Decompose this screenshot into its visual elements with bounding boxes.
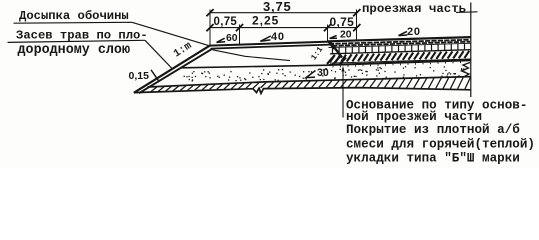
sand layer top line (pavement zone, thick) <box>329 60 471 65</box>
svg-text:40: 40 <box>271 31 285 43</box>
svg-text:2,25: 2,25 <box>252 13 279 27</box>
sand stipple dots <box>184 66 466 81</box>
slope arrow 40 <box>260 36 271 41</box>
sand layer top line (shoulder zone) <box>182 65 330 68</box>
svg-text:20: 20 <box>340 29 352 40</box>
underline of Досыпка обочины <box>14 21 133 24</box>
ground line top of hatch strip <box>148 77 471 87</box>
dimension line 3,75 <box>210 12 358 14</box>
dimension line 0,75/2,25/0,75 <box>210 27 358 29</box>
sub-base bottom thin line <box>330 59 471 63</box>
leader from Досыпка обочины to shoulder hinge <box>132 22 210 46</box>
svg-text:60: 60 <box>226 33 238 44</box>
embankment slope inner line <box>139 49 212 93</box>
embankment slope outer line <box>134 46 210 93</box>
sand layer torn right edge <box>462 63 471 77</box>
old shoulder boundary line <box>213 50 291 61</box>
svg-text:0,75: 0,75 <box>214 16 238 28</box>
svg-text:Покрытие из плотной а/б: Покрытие из плотной а/б <box>346 122 520 137</box>
leader from Засев трав to slope <box>145 40 173 69</box>
svg-text:смеси для горячей(теплой): смеси для горячей(теплой) <box>346 137 535 151</box>
svg-text:укладки типа "Б"Ш марки: укладки типа "Б"Ш марки <box>346 152 520 166</box>
pavement surface line <box>328 37 471 41</box>
slope arrow 20 edge strip <box>330 36 337 39</box>
svg-text:Досыпка обочины: Досыпка обочины <box>19 8 129 23</box>
ground hatch strokes <box>151 77 471 91</box>
shoulder surface top line <box>210 42 330 46</box>
base-course bottom line <box>330 50 471 54</box>
road axis line <box>470 3 472 98</box>
slope arrow 20 carriageway <box>399 31 408 35</box>
extension line x=239.5 <box>239 25 241 46</box>
svg-text:0,15: 0,15 <box>129 70 150 82</box>
slope arrow 60 <box>217 38 226 42</box>
asphalt pavement dash courses <box>329 40 470 46</box>
svg-text:ной проезжей части: ной проезжей части <box>346 110 482 124</box>
underline of Засев трав <box>8 40 146 42</box>
sub-base diagonal hatch band <box>327 51 469 65</box>
axis dash after проезжая часть <box>456 11 478 14</box>
svg-text:дородному слою: дородному слою <box>18 43 131 58</box>
extension line x=356.5 <box>356 10 358 42</box>
svg-text:проезжая часть: проезжая часть <box>362 2 466 16</box>
dim ticks <box>206 9 360 31</box>
extension line x=210 <box>209 10 211 46</box>
tick 0,15 across slope lines <box>151 70 159 81</box>
slope arrow 30 subgrade <box>306 71 316 78</box>
svg-text:0,75: 0,75 <box>330 15 355 29</box>
ticks under base line <box>333 62 461 68</box>
shoulder surface bottom line <box>211 45 331 49</box>
ground line bottom of hatch strip with break <box>135 88 471 94</box>
base-course brick dividers <box>333 44 465 54</box>
leader line to Основание text <box>342 70 344 118</box>
base-course top line <box>329 43 471 47</box>
extension line x=327.5 <box>327 25 329 42</box>
svg-text:3,75: 3,75 <box>263 0 292 14</box>
svg-text:20: 20 <box>407 26 421 38</box>
leader arrowhead <box>342 66 345 72</box>
pavement edge slant 1:1 <box>329 41 335 48</box>
